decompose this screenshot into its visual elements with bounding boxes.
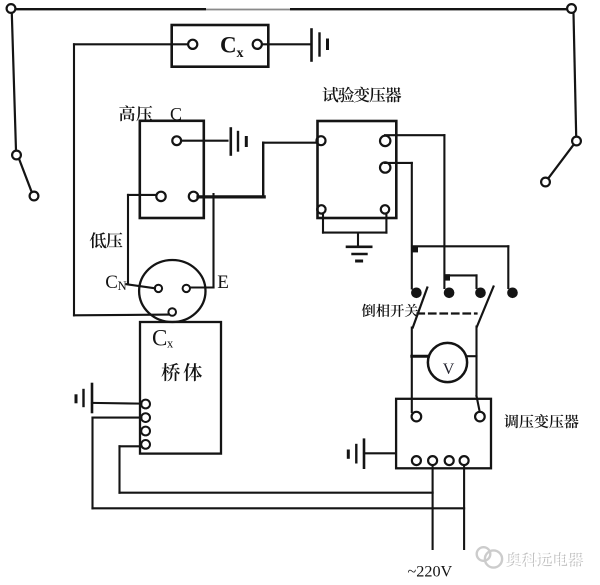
switch S2 (right discharge switch) top terminal	[567, 4, 576, 13]
value label Cx (top box)	[220, 33, 244, 62]
wire: CN top terminal to ground	[181, 140, 227, 142]
terminal: regulator bottom 2	[428, 456, 437, 465]
switch S1 pivot terminal	[12, 151, 21, 160]
wire: mains N drop from regulator bottom 4	[463, 465, 465, 549]
svg-text:C: C	[220, 33, 237, 58]
terminal: regulator bottom 3	[445, 456, 454, 465]
wire: top bus middle segment	[206, 9, 290, 11]
wire: ground to regulator	[364, 452, 395, 454]
svg-text:x: x	[167, 337, 174, 351]
label Cx (bridge input)	[152, 325, 174, 350]
junction: column B branch	[444, 274, 450, 280]
wire: bridge T4 left	[120, 445, 142, 447]
wire: T4 bottom bus to regulator	[120, 492, 433, 494]
terminal: TT right mid	[380, 162, 390, 172]
switch blade K2	[477, 287, 494, 327]
wire: T2 riser down	[91, 418, 93, 509]
terminal: CN box bottom-left	[156, 192, 165, 201]
wire: K2 down	[475, 327, 477, 397]
label 试验变压器 (test transformer)	[323, 87, 339, 103]
label 倒相开关 (phase reversing switch)	[362, 304, 375, 317]
wire: E branch to bushing right terminal	[191, 286, 214, 288]
terminal: TT bottom right	[381, 205, 389, 213]
wire: K1 to regulator left terminal	[411, 328, 413, 413]
label 调压变压器 (voltage regulator)	[504, 414, 518, 428]
ground GND2 (right of CN box)	[231, 129, 247, 155]
wire: E branch down	[212, 194, 214, 287]
wire: down to CN node	[127, 195, 129, 284]
wire: drop to contact 4	[507, 246, 509, 288]
wire: CN bottom-right terminal bus (thick)	[198, 195, 264, 198]
terminal: bridge T1	[141, 400, 150, 409]
voltmeter V	[428, 343, 467, 382]
terminal: Cx right	[253, 40, 262, 49]
wire: column B down to contact 2	[443, 135, 445, 288]
wire: CN bottom-left terminal to CN node	[128, 194, 156, 196]
svg-text:C: C	[105, 272, 118, 293]
node label CN	[105, 272, 126, 293]
terminal: TT right top	[380, 136, 390, 146]
junction: column A branch	[412, 246, 418, 252]
wire: top bus right segment	[290, 8, 569, 10]
svg-text:~220V: ~220V	[408, 563, 453, 581]
wire: voltmeter right tick	[467, 355, 477, 357]
terminal: bushing right (E)	[183, 285, 190, 292]
ground GND5 (regulator ground)	[348, 440, 364, 468]
terminal: bushing left (CN)	[155, 285, 162, 292]
ground GND3 (bridge ground)	[76, 384, 92, 412]
label 高压 (high voltage)	[119, 105, 135, 121]
switch gang link (dashed)	[418, 312, 477, 314]
wire: K2 into regulator right terminal	[477, 396, 480, 412]
svg-text:E: E	[217, 272, 229, 293]
wire: bridge T2 left	[93, 417, 142, 419]
wire: voltmeter left tick	[412, 355, 429, 358]
test transformer box	[317, 121, 397, 218]
switch S2 blade	[548, 145, 573, 179]
wire: T4 riser down	[118, 446, 120, 492]
wire: Cx left terminal to left riser	[74, 43, 188, 45]
terminal: regulator bottom 1	[412, 456, 421, 465]
wire: column A down to contact 1	[411, 163, 413, 289]
switch blade K1	[413, 288, 428, 328]
terminal: bushing bottom (Cx tap)	[168, 308, 176, 316]
wire: TT bottom-left lead down	[322, 214, 324, 233]
bridge body box (桥体)	[140, 322, 221, 454]
capacitor Cx (test object, top box)	[172, 25, 269, 67]
wire: riser to test transformer	[262, 143, 264, 197]
terminal: CN box bottom-right	[189, 192, 198, 201]
wire: to test transformer left terminal	[263, 142, 316, 144]
wire: left riser down	[73, 44, 75, 315]
wire: Cx right terminal to ground	[262, 43, 310, 45]
label 低压 (low voltage)	[90, 232, 106, 248]
svg-text:V: V	[443, 361, 455, 378]
terminal: bridge T3	[141, 427, 150, 436]
wire: drop to contact 3	[475, 275, 477, 288]
terminal: TT left (HV in)	[317, 136, 326, 145]
switch S2 free terminal	[541, 178, 550, 187]
svg-text:x: x	[237, 46, 244, 61]
wire: top bus left segment	[14, 8, 206, 10]
wire: mains L drop from regulator bottom 2	[432, 465, 434, 549]
svg-text:N: N	[118, 279, 127, 293]
wire: CN node to bushing left terminal	[127, 284, 156, 288]
voltage regulator box (调压变压器)	[396, 399, 491, 469]
wire: riser to bushing tap terminal	[74, 314, 168, 317]
wire: branch from column B to contact 3	[445, 274, 477, 276]
terminal: bridge T2	[141, 413, 150, 422]
wire: TT bottom-right lead down	[385, 214, 387, 233]
wire: TT bottom bracket	[323, 232, 386, 234]
logo icon (watermark circles)	[477, 547, 502, 567]
wire: TT right-top tap to column B	[385, 134, 444, 136]
terminal: regulator top right	[475, 412, 485, 422]
ground GND4 (test transformer tank ground)	[347, 247, 371, 261]
svg-text:C: C	[152, 325, 167, 350]
label 桥体 (bridge body)	[162, 363, 181, 381]
wire: TT right-mid tap to column A	[385, 162, 412, 164]
wire: T2 bottom bus to regulator	[93, 507, 465, 509]
terminal: CN box top	[172, 136, 181, 145]
switch S1 (left discharge switch) top terminal	[7, 4, 16, 13]
wire: branch from column A to contact 4	[412, 245, 508, 247]
terminal: Cx left	[188, 40, 197, 49]
switch S2 pivot terminal	[572, 137, 581, 146]
switch S1 blade	[19, 159, 32, 192]
contact P1 (reversing switch)	[411, 288, 422, 299]
contact P2	[444, 288, 455, 299]
switch S1 free terminal	[30, 192, 39, 201]
terminal: TT bottom left	[317, 205, 325, 213]
standard capacitor CN box (高压 box)	[140, 121, 204, 218]
wire: bracket to ground	[357, 233, 359, 247]
contact P3	[475, 288, 486, 299]
wire: ground to bridge T1	[92, 402, 141, 405]
wire: S1 vertical lead	[12, 13, 16, 150]
contact P4	[507, 288, 518, 299]
wire: S2 vertical lead	[574, 13, 577, 136]
terminal: regulator top left	[412, 412, 422, 422]
terminal: regulator bottom 4	[460, 456, 469, 465]
terminal: bridge T4	[141, 440, 150, 449]
bushing / test specimen (circle)	[139, 260, 205, 322]
ground GND1 (right of Cx box)	[312, 30, 328, 61]
logo text 奥科远电器 (watermark)	[506, 552, 584, 568]
